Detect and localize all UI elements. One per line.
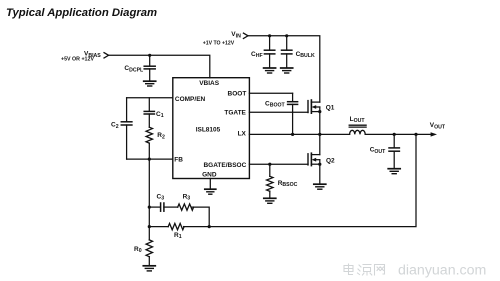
svg-text:Q1: Q1 [326,104,335,111]
capacitor CHF [251,36,275,68]
svg-text:C1: C1 [156,111,164,119]
capacitor C1 [144,98,164,127]
wire FB [127,158,173,160]
node VBIAS input terminal [61,51,109,63]
wire BOOT [249,92,292,94]
wire feedback to VOUT [209,134,416,226]
ground (R0) [143,266,155,271]
wire VOUT [365,133,431,135]
svg-text:VIN: VIN [231,31,241,39]
capacitor C2 branch [111,98,132,159]
inductor LOUT [349,116,366,135]
node RBSOC tee [268,163,271,166]
svg-text:BOOT: BOOT [228,91,247,98]
wire COMP/EN [127,97,173,99]
transistor Q1 [308,100,335,134]
svg-text:GND: GND [202,171,217,178]
svg-text:RBSOC: RBSOC [278,180,298,188]
transistor Q2 [308,134,335,184]
wire FB node down to feedback network [148,159,150,227]
resistor R3 [178,193,210,226]
resistor R2 [146,127,165,159]
resistor RBSOC [267,164,298,198]
svg-text:LOUT: LOUT [350,116,366,124]
svg-text:COMP/EN: COMP/EN [175,96,206,103]
ground (CDCPL) [144,81,156,86]
node CBULK junction [285,34,288,37]
node R1/R3 join [208,225,211,228]
node VIN input terminal [203,31,248,46]
svg-text:C2: C2 [111,122,119,130]
svg-text:+5V OR +12V: +5V OR +12V [61,57,94,63]
capacitor COUT [370,134,400,168]
wire VBIAS rail to IC [109,55,210,77]
svg-text:Q2: Q2 [326,158,335,165]
svg-text:R3: R3 [183,193,191,201]
node R1 tee [148,225,151,228]
op-amp U1 ISL8105 IC body [173,78,250,179]
svg-text:TGATE: TGATE [224,110,246,117]
watermark 电源网 dianyuan.com [344,264,385,275]
svg-text:VOUT: VOUT [430,122,446,130]
node FB junction [148,158,151,161]
svg-text:Typical Application Diagram: Typical Application Diagram [6,7,157,19]
svg-text:VBIAS: VBIAS [199,80,220,87]
capacitor CBULK [282,36,315,68]
svg-text:CBOOT: CBOOT [265,100,286,108]
ground (RBSOC) [264,198,276,203]
svg-text:BGATE/BSOC: BGATE/BSOC [203,162,246,169]
svg-text:dianyuan.com: dianyuan.com [398,263,486,279]
svg-text:CDCPL: CDCPL [124,65,144,73]
svg-text:+1V TO +12V: +1V TO +12V [203,41,235,47]
wire LX / phase node [249,133,349,135]
svg-text:R2: R2 [157,132,165,140]
svg-text:C3: C3 [157,193,165,201]
node VOUT arrow [430,122,446,136]
ground (IC GND) [205,189,216,194]
resistor R0 [134,227,153,266]
svg-text:R0: R0 [134,246,142,254]
node phase junction [318,133,321,136]
capacitor C3 [149,193,177,211]
wire GND pin [209,179,211,189]
capacitor CBOOT [265,93,298,134]
capacitor CDCPL [124,55,155,80]
svg-text:CHF: CHF [251,51,263,59]
svg-text:R1: R1 [174,232,182,240]
node COUT tee [393,133,396,136]
ground (COUT) [388,169,400,174]
svg-text:LX: LX [238,130,247,137]
resistor R1 [149,223,209,240]
ground (Q2 source) [314,184,326,189]
node CBOOT/LX junction [291,133,294,136]
svg-text:ISL8105: ISL8105 [196,127,221,134]
wire VIN rail to Q1 drain [248,36,320,102]
wire BGATE to Q2 gate [249,163,308,165]
title [6,7,157,19]
node feedback tee [414,133,417,136]
node VBIAS/CDCPL junction [148,54,151,57]
svg-text:CBULK: CBULK [296,51,315,59]
ground (CHF) [264,68,276,73]
svg-text:COUT: COUT [370,147,386,155]
wire TGATE to Q1 gate [249,111,308,113]
svg-text:FB: FB [174,157,183,164]
node CHF junction [268,34,271,37]
node C3 tee [148,206,151,209]
ground (CBULK) [281,68,293,73]
